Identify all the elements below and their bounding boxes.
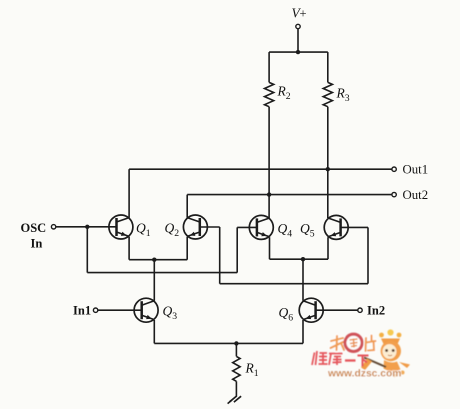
wire bottom emitter rail [154, 342, 303, 344]
wire Q2 base drop [219, 227, 221, 284]
wire Q6 collector riser [302, 259, 304, 301]
wire Q6 emitter drop [302, 320, 304, 343]
wire Q1-Q2 emitter rail [129, 259, 187, 261]
wire OSC In to Q1 base [56, 226, 117, 228]
label Q2 [165, 221, 180, 240]
wire top rail [269, 51, 328, 53]
wire R2 column to Q4 collector [268, 107, 270, 218]
transistor Q2 [183, 215, 207, 239]
label V+ [292, 6, 307, 21]
wire Q2 emitter drop [186, 237, 188, 260]
label Q3 [163, 304, 178, 323]
label Q1 [136, 221, 151, 240]
wire In1 to Q3 base [98, 309, 142, 311]
label R3 [336, 86, 350, 105]
label Out1 [403, 162, 429, 176]
watermark mascot [361, 329, 410, 377]
label Out2 [403, 188, 429, 202]
node R1 junction [234, 341, 238, 345]
node Out2-R2 junction [267, 192, 271, 196]
label In2 [367, 304, 385, 318]
wire V+ drop [297, 29, 299, 52]
label Q5 [300, 221, 315, 240]
wire Q4 base riser [236, 227, 238, 272]
transistor Q1 [109, 215, 133, 239]
wire Out2 line [187, 194, 392, 196]
wire Q6 base lead [316, 309, 358, 311]
svg-text:R2: R2 [277, 84, 291, 103]
svg-text:Out1: Out1 [403, 162, 429, 176]
svg-text:In1: In1 [73, 304, 91, 318]
label R2 [277, 84, 291, 103]
svg-text:R1: R1 [245, 361, 259, 380]
svg-text:Out2: Out2 [403, 188, 429, 202]
label In1 [73, 304, 91, 318]
label Q6 [279, 305, 294, 324]
terminal Out2 [392, 192, 396, 196]
terminal Out1 [392, 167, 396, 171]
wire line A to Q4 base [87, 272, 237, 274]
node Out1-R3 junction [326, 167, 330, 171]
svg-text:In2: In2 [367, 304, 385, 318]
svg-text:Q5: Q5 [300, 221, 315, 240]
watermark logo char wo [331, 336, 345, 350]
label Q4 [278, 221, 293, 240]
wire Q4 emitter drop [269, 237, 271, 259]
transistor Q3 [134, 298, 158, 322]
wire Q1 collector riser [128, 169, 130, 217]
wire R1 bottom lead [235, 381, 237, 396]
svg-text:Q1: Q1 [136, 221, 151, 240]
wire Q2 collector riser [186, 195, 188, 218]
node Q4-Q5 emitter junction [301, 257, 305, 261]
terminal OSC In [51, 225, 55, 229]
wire Q2 base lead [200, 226, 220, 228]
wire Q3 collector riser [153, 260, 155, 301]
node OSC branch [85, 225, 89, 229]
watermark group (soft scanned look) [312, 329, 410, 379]
label R1 [245, 361, 259, 380]
node V+ junction [296, 50, 300, 54]
watermark url www.dzsc.com [327, 368, 401, 379]
svg-text:www.dzsc.com: www.dzsc.com [327, 368, 401, 379]
wire line B to Q5 base [220, 283, 368, 285]
wire R3 top lead [327, 52, 329, 82]
terminal V+ [296, 24, 300, 28]
ground [228, 396, 242, 404]
transistor Q5 [324, 215, 348, 239]
transistor Q6 [299, 298, 323, 322]
wire Q1 emitter drop [128, 237, 130, 260]
resistor R1 [233, 356, 240, 381]
wire Q3 emitter drop [153, 320, 155, 343]
label OSC In [21, 221, 47, 251]
terminal In1 [93, 308, 97, 312]
svg-text:OSC: OSC [21, 221, 47, 235]
transistor Q4 [249, 215, 273, 239]
svg-text:+: + [300, 7, 307, 21]
watermark red seal circle [345, 334, 362, 351]
svg-text:Q6: Q6 [279, 305, 294, 324]
watermark logo char pian [366, 336, 376, 352]
resistor R3 [323, 82, 332, 106]
terminal In2 [358, 308, 362, 312]
wire Q5 base lead [341, 226, 368, 228]
wire R3 column to Q5 collector [327, 107, 329, 218]
svg-text:R3: R3 [336, 86, 350, 105]
wire Q5 base riser [367, 227, 369, 283]
svg-text:Q4: Q4 [278, 221, 293, 240]
watermark text weiku yixia [312, 351, 369, 367]
node Q1-Q2 emitter junction [152, 258, 156, 262]
wire Out1 line [129, 168, 392, 170]
svg-text:In: In [31, 237, 43, 251]
wire Q5 emitter drop [327, 237, 329, 259]
wire Q4-Q5 emitter rail [270, 258, 329, 260]
svg-text:Q3: Q3 [163, 304, 178, 323]
resistor R2 [265, 82, 274, 106]
wire R1 top lead [235, 343, 237, 356]
wire Q4 base lead [237, 226, 257, 228]
svg-text:Q2: Q2 [165, 221, 180, 240]
wire OSC branch drop [86, 227, 88, 273]
wire R2 top lead [268, 52, 270, 82]
